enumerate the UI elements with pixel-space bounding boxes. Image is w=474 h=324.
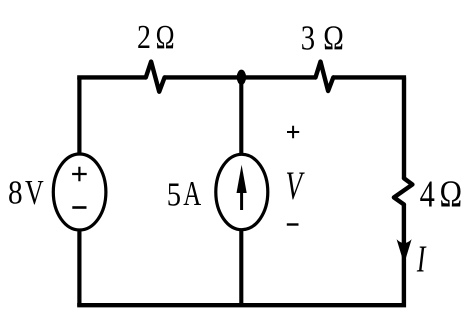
svg-text:I: I xyxy=(416,239,427,281)
svg-text:8: 8 xyxy=(8,173,23,211)
svg-text:Ω: Ω xyxy=(323,18,344,57)
svg-text:Ω: Ω xyxy=(156,18,175,56)
svg-text:5: 5 xyxy=(167,175,181,213)
svg-text:V: V xyxy=(25,173,44,212)
svg-text:4: 4 xyxy=(420,173,435,215)
svg-text:3: 3 xyxy=(301,18,315,57)
svg-text:Ω: Ω xyxy=(440,173,463,215)
svg-text:2: 2 xyxy=(137,18,151,56)
svg-text:A: A xyxy=(183,174,201,213)
svg-text:V: V xyxy=(286,165,306,208)
